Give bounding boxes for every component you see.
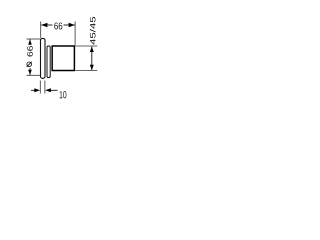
background [0, 0, 120, 120]
arrow pointing right (10 dim) [34, 88, 40, 92]
extension line left-top (dia 66) [27, 38, 41, 40]
dimension line dia66 [29, 39, 31, 45]
extension line right-bottom (45/45) [75, 70, 97, 72]
diameter symbol slash [27, 62, 32, 67]
label 45/45 rotated [90, 17, 96, 45]
arrow down (45/45) [90, 65, 94, 70]
arrow right of 66 [69, 23, 75, 27]
arrow up (dia66) [28, 39, 32, 44]
leader left (10 dim) [31, 89, 36, 91]
arrow left of 66 [41, 23, 47, 27]
extension line bottom-left (10 dim) [39, 81, 41, 94]
arrow pointing left (10 dim) [45, 88, 51, 92]
extension line bottom-right (10 dim) [44, 81, 46, 94]
dimension line 66 (top) [41, 24, 52, 26]
escutcheon plate (side view slab) [41, 38, 46, 78]
dimension line 45/45 [91, 46, 93, 70]
extension line right-top (45/45) [75, 45, 97, 47]
extension line top-left (66 dim) [40, 22, 42, 38]
extension line top-right (66 dim / box right) [74, 22, 76, 46]
label 66 [54, 22, 62, 29]
arrow up (45/45) [90, 47, 94, 52]
label 10 [60, 91, 67, 98]
sleeve collar (neck) [47, 46, 50, 78]
label dia 66 rotated [27, 46, 33, 57]
arrow down (dia66) [28, 70, 32, 75]
leader right (10 dim) [51, 89, 58, 91]
extension line left-bottom (dia 66) [27, 74, 41, 76]
valve body box [52, 46, 74, 71]
diameter symbol circle [27, 62, 32, 67]
